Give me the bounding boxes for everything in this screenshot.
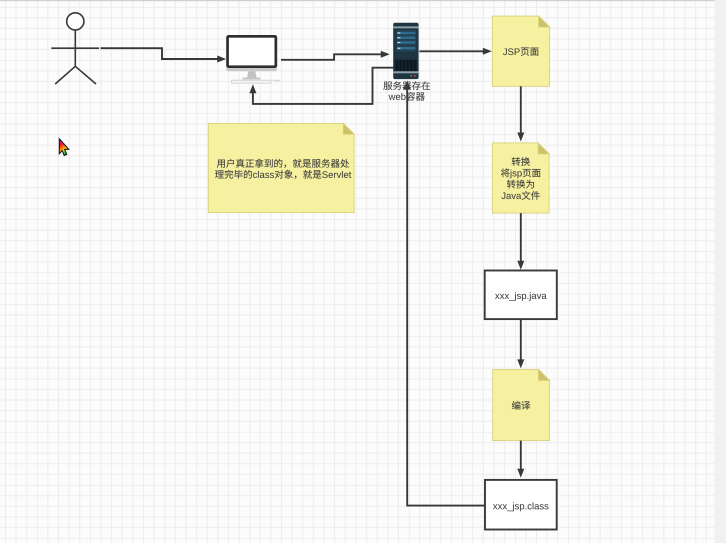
box: xxx_jsp.class bbox=[485, 480, 557, 530]
wire java box to compile note bbox=[520, 319, 522, 361]
server tower icon bbox=[393, 23, 418, 79]
wire actor to monitor bbox=[101, 48, 220, 59]
note: JSP page bbox=[492, 16, 549, 86]
wire xxx_jsp.class back to server bbox=[407, 88, 485, 505]
wire server back to monitor bbox=[253, 68, 394, 104]
note: compile bbox=[493, 369, 550, 440]
note: convert jsp to java bbox=[492, 143, 549, 213]
right gray gutter bbox=[715, 0, 726, 543]
top edge line bbox=[0, 0, 715, 1]
wire JSP note to convert note bbox=[520, 86, 522, 134]
label: server text bbox=[383, 81, 430, 100]
wire convert note to java box bbox=[520, 213, 522, 262]
actor (stick figure) bbox=[51, 13, 99, 84]
note: user gets servlet explanation bbox=[208, 123, 354, 212]
wire compile note to class box bbox=[520, 441, 522, 471]
wire monitor to server bbox=[281, 54, 383, 60]
mouse cursor bbox=[59, 139, 68, 156]
box: xxx_jsp.java bbox=[485, 271, 557, 320]
wire server to JSP note bbox=[419, 50, 485, 52]
monitor (client computer) bbox=[226, 35, 280, 83]
